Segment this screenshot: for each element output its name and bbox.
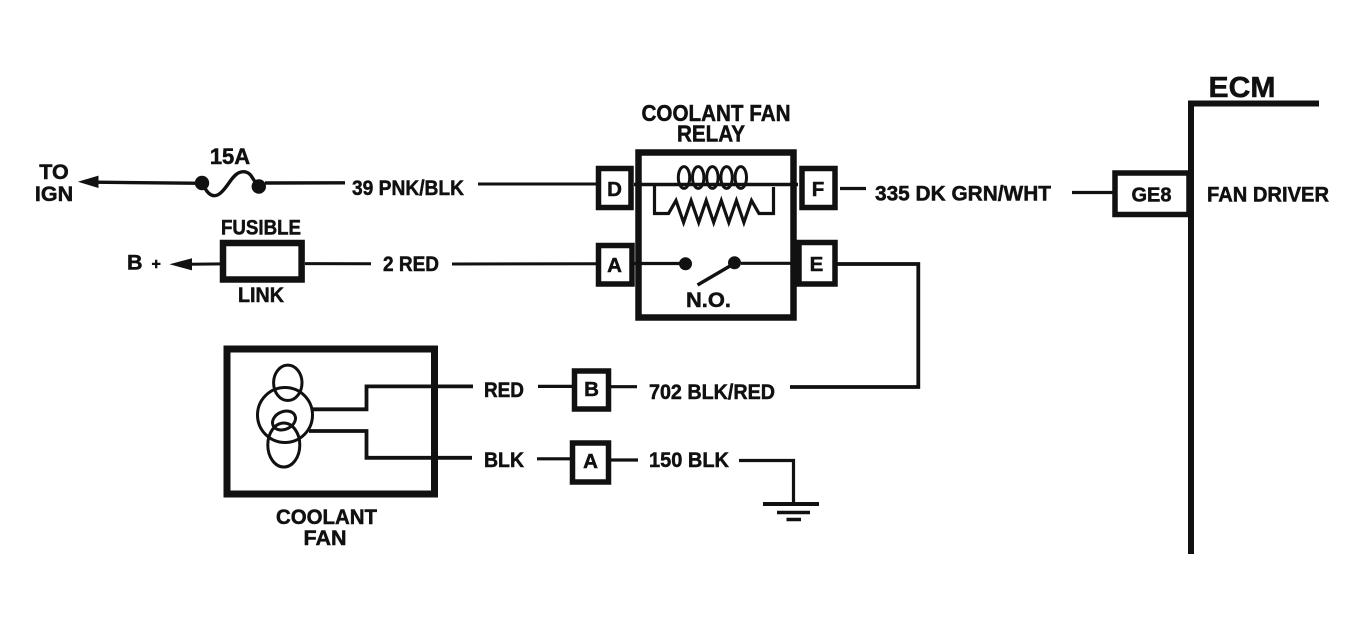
svg-text:702 BLK/RED: 702 BLK/RED bbox=[649, 380, 775, 404]
wire connector B to 702 label bbox=[610, 385, 637, 388]
relay pin E terminal box bbox=[799, 243, 835, 285]
wire relay switch line A side bbox=[634, 262, 686, 265]
fuse F1 15A bbox=[195, 176, 209, 190]
wire RED to connector B bbox=[538, 385, 573, 388]
wire 39 PNK/BLK to relay pin D bbox=[478, 183, 599, 186]
svg-text:RED: RED bbox=[484, 378, 524, 402]
connector GE8 bbox=[1115, 173, 1189, 215]
svg-text:BLK: BLK bbox=[484, 448, 524, 472]
relay K1 body bbox=[639, 153, 794, 318]
ECM boundary vertical line bbox=[1188, 101, 1194, 555]
fusible link component bbox=[223, 243, 302, 280]
relay switch contact left bbox=[679, 257, 692, 270]
svg-text:LINK: LINK bbox=[238, 283, 284, 307]
svg-text:E: E bbox=[810, 253, 824, 276]
wire connector A to 150 label bbox=[609, 458, 638, 461]
coolant fan motor M1 housing box bbox=[227, 349, 435, 494]
wire fusible link to 2 RED bbox=[305, 262, 371, 265]
wire relay switch line E side bbox=[741, 262, 800, 265]
relay pin A terminal box bbox=[599, 246, 633, 285]
wire E to junction, down to 702 BLK/RED bbox=[790, 264, 918, 387]
svg-text:D: D bbox=[607, 178, 622, 201]
svg-text:N.O.: N.O. bbox=[686, 288, 731, 312]
wire 335 label to GE8 bbox=[1072, 191, 1116, 194]
svg-text:FAN DRIVER: FAN DRIVER bbox=[1207, 182, 1329, 206]
svg-text:B: B bbox=[584, 378, 599, 401]
wire F to 335 label bbox=[840, 187, 866, 190]
relay pin D terminal box bbox=[599, 169, 632, 208]
wire motor terminals to fan connector bbox=[311, 386, 473, 409]
svg-text:2 RED: 2 RED bbox=[383, 252, 439, 276]
ECM top bar bbox=[1188, 101, 1319, 107]
wire 2 RED to relay pin A bbox=[452, 262, 599, 265]
svg-text:ECM: ECM bbox=[1209, 72, 1276, 104]
relay pin F terminal box bbox=[802, 169, 835, 208]
relay switch contact right bbox=[728, 256, 741, 269]
svg-text:GE8: GE8 bbox=[1132, 183, 1172, 206]
svg-text:A: A bbox=[607, 254, 622, 277]
svg-text:IGN: IGN bbox=[35, 182, 73, 206]
svg-text:150 BLK: 150 BLK bbox=[649, 448, 729, 472]
svg-text:15A: 15A bbox=[210, 144, 250, 169]
svg-text:TO: TO bbox=[39, 160, 68, 184]
wire arrow to B+ bbox=[170, 258, 193, 270]
svg-text:335 DK GRN/WHT: 335 DK GRN/WHT bbox=[875, 182, 1051, 206]
wire fuse to 39 PNK/BLK bbox=[265, 181, 345, 185]
ground G1 bbox=[763, 504, 819, 520]
wire 150 BLK to ground bbox=[739, 461, 794, 504]
wire BLK to connector A bbox=[537, 457, 571, 460]
svg-text:FAN: FAN bbox=[304, 526, 347, 550]
svg-text:A: A bbox=[583, 450, 598, 473]
svg-text:+: + bbox=[152, 256, 161, 273]
connector pin B bbox=[575, 371, 609, 409]
connector pin A bbox=[573, 443, 609, 482]
relay switch blade bbox=[698, 266, 731, 285]
svg-text:39 PNK/BLK: 39 PNK/BLK bbox=[352, 176, 464, 200]
svg-text:B: B bbox=[127, 251, 143, 275]
relay resistor R1 (parallel with coil) bbox=[655, 186, 774, 223]
relay coil L1 loops bbox=[678, 167, 746, 189]
wire arrow to IGN bbox=[78, 176, 99, 188]
motor M1 symbol bbox=[258, 365, 313, 467]
svg-text:FUSIBLE: FUSIBLE bbox=[221, 216, 301, 240]
wire relay coil line D to F bbox=[634, 183, 798, 186]
svg-text:F: F bbox=[812, 178, 825, 201]
svg-text:RELAY: RELAY bbox=[677, 121, 745, 147]
